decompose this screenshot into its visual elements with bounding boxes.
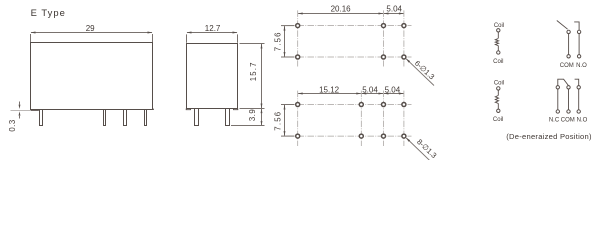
dimension 12.7 arrow right [233,32,238,34]
dimension 0.3 leader top [19,102,21,105]
dimension 29 extension right [152,34,154,42]
dimension 5.04 p1 arrow right [399,13,404,15]
dimension 29 arrow right [148,32,153,34]
dimension 29 line [31,32,152,34]
pattern 1 centerline col 4 [403,10,405,66]
pattern 2 hole 2 [359,103,363,107]
dimension 5.04 p2a arrow right [379,93,384,95]
pattern 1 centerline col 3 [383,10,385,66]
pattern 2 centerline col 4 [403,91,405,146]
svg-text:20.16: 20.16 [331,5,352,14]
pattern 1 hole 4 [296,55,300,59]
relay front view body [31,43,153,110]
pattern 1 hole 3 [402,24,406,28]
svg-text:N.O: N.O [576,63,587,69]
svg-text:Coil: Coil [493,117,503,123]
schematic 2 COM terminal top [567,86,570,89]
dimension 12.7 extension right [237,34,239,42]
dimension 3.9 line [261,109,263,125]
dimension 5.04 p2a arrow left [361,93,366,95]
schematic 2 coil terminal bottom [497,109,500,112]
dimension 0.3 arrow bottom [19,111,21,115]
dimension 7.56 p1 arrow top [284,26,286,31]
schematic 1 COM terminal top [567,30,570,33]
dimension 7.56 p2 arrow top [284,105,286,110]
schematic 1 COM blade [557,21,568,30]
dimension 7.56 p2 line [284,105,286,136]
pattern 2 hole 8 [402,134,406,138]
front view pin 4 [145,110,147,126]
dimension 29 arrow left [31,32,36,34]
dimension 7.56 p2 extension top [281,104,295,106]
dimension 15.7 arrow bottom [261,104,263,109]
side view pin 1 [195,109,199,126]
schematic 1 NO wire [578,34,580,55]
pattern 1 hole 6 [402,55,406,59]
schematic 1 coil wire bottom [497,46,499,51]
schematic 2 COM terminal bottom [567,110,570,113]
front view base flange [31,109,39,111]
svg-text:Coil: Coil [494,23,504,29]
svg-text:(De-eneraized Position): (De-eneraized Position) [506,132,592,141]
dimension 12.7 arrow left [187,32,192,34]
schematic 2 NO terminal bottom [577,110,580,113]
svg-text:COM: COM [561,118,575,124]
pattern 2 centerline col 1 [297,91,299,146]
pattern 1 centerline col 1 [297,10,299,66]
dimension 0.3 arrow top [19,105,21,109]
dimension 3.9 arrow bottom [261,121,263,125]
svg-text:15.12: 15.12 [319,86,340,95]
leader 8-d1.3 line [406,138,432,163]
dimension 15.12 line [298,93,361,95]
front view right base notch [152,108,155,111]
side view foot left [186,109,190,110]
pattern 1 hole 1 [296,24,300,28]
dimension 15.7 arrow top [261,44,263,49]
svg-text:7.56: 7.56 [274,111,283,131]
dimension 15.12 arrow left [298,93,303,95]
svg-text:E Type: E Type [31,7,66,18]
svg-text:15.7: 15.7 [249,61,258,81]
pattern 2 centerline row 1 [288,104,412,106]
front view pin 1 [40,110,43,126]
front view pin 2 [104,110,106,126]
schematic 2 NO terminal top [577,86,580,89]
dimension 5.04 p1 arrow left [384,13,389,15]
dimension 15.7 line [261,44,263,108]
leader 8-d1.3 arrow [406,138,410,142]
leader 6-d1.3 arrow [406,58,410,62]
dimension 0.3 seating line [11,109,31,111]
pattern 1 hole 2 [382,24,386,28]
dimension 5.04 p2b arrow left [384,93,389,95]
schematic 2 NC terminal top [556,86,559,89]
dimension 7.56 p1 extension bottom [281,56,295,58]
svg-text:N.C: N.C [549,118,560,124]
dimension 20.16 arrow left [298,13,303,15]
schematic 2 coil wire bottom [497,104,499,110]
dimension 12.7 line [187,32,237,34]
front view pin 3 [124,110,127,126]
pattern 2 centerline col 2 [360,91,362,146]
schematic 2 coil wire top [497,90,499,95]
svg-text:5.04: 5.04 [362,86,378,95]
pattern 2 centerline row 2 [288,135,412,137]
schematic 1 NO terminal top [577,30,580,33]
pattern 2 hole 5 [296,134,300,138]
svg-text:12.7: 12.7 [205,24,221,33]
svg-text:0.3: 0.3 [8,119,17,131]
schematic 1 coil terminal top [497,29,500,32]
pattern 1 centerline row 1 [288,25,412,27]
schematic 1 NO hook [574,22,579,30]
svg-text:N.O: N.O [577,118,588,124]
pattern 2 centerline col 3 [383,91,385,146]
relay side view body [187,44,238,109]
pattern 2 hole 6 [359,134,363,138]
schematic 2 NC blade [558,79,569,85]
dimension 5.04 p2b line [384,93,403,95]
svg-text:3.9: 3.9 [248,109,257,121]
schematic 2 coil terminal top [497,87,500,90]
pattern 1 centerline row 2 [288,56,412,58]
svg-text:5.04: 5.04 [386,5,402,14]
side view foot right [234,109,238,110]
svg-text:5.04: 5.04 [385,86,401,95]
svg-text:Coil: Coil [493,59,503,65]
schematic 1 NO terminal bottom [577,55,580,58]
schematic 1 coil terminal bottom [497,51,500,54]
dimension 5.04 p2a line [362,93,383,95]
svg-text:COM: COM [560,63,574,69]
dimension 15.7 extension top [240,43,265,45]
schematic 2 NO wire [578,89,580,110]
dimension 20.16 arrow right [379,13,384,15]
dimension 29 extension left [30,34,32,42]
dimension 7.56 p1 line [284,26,286,56]
pattern 2 hole 1 [296,103,300,107]
dimension 15.7 extension bottom [240,108,265,110]
schematic 1 coil winding [495,38,498,45]
schematic 2 NO hook [575,79,579,85]
dimension 3.9 extension bottom [231,125,265,127]
schematic 1 coil wire top [497,32,499,38]
schematic 2 NC terminal bottom [556,110,559,113]
schematic 2 COM wire [568,89,570,110]
dimension 20.16 line [298,13,383,15]
dimension 7.56 p1 arrow bottom [284,52,286,57]
dimension 5.04 p2b arrow right [399,93,404,95]
schematic 1 COM terminal bottom [567,55,570,58]
svg-text:7.56: 7.56 [274,31,283,51]
side view pin 2 [226,109,230,126]
dimension 0.3 leader bottom [19,116,21,119]
pattern 2 hole 7 [382,134,386,138]
pattern 2 hole 4 [402,103,406,107]
pattern 2 hole 3 [382,103,386,107]
dimension 12.7 extension left [186,34,188,42]
pattern 1 hole 5 [382,55,386,59]
dimension 7.56 p1 extension top [281,25,295,27]
leader 6-d1.3 line [406,59,434,86]
dimension 15.12 arrow right [356,93,361,95]
dimension 7.56 p2 extension bottom [281,135,295,137]
svg-text:29: 29 [86,24,95,33]
schematic 2 coil winding [495,95,498,103]
svg-text:Coil: Coil [494,80,504,86]
dimension 7.56 p2 arrow bottom [284,131,286,136]
dimension 5.04 p1 line [384,13,403,15]
schematic 2 NC wire [557,89,559,110]
schematic 1 COM wire [568,34,570,55]
dimension 3.9 arrow top [261,109,263,113]
